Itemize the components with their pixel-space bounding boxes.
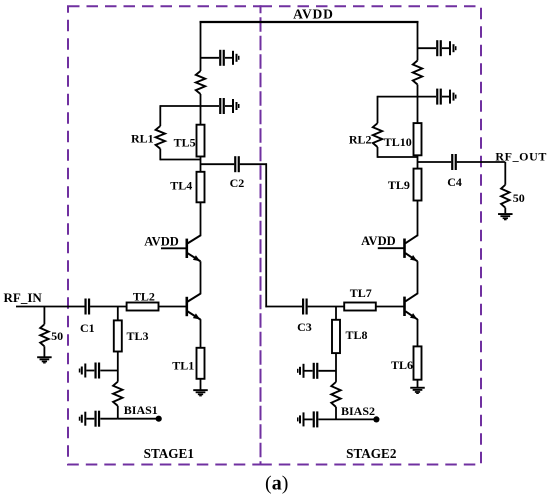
resistor stage1 bias bbox=[113, 382, 122, 406]
resistor 50 (input termination) bbox=[40, 307, 48, 357]
svg-text:TL7: TL7 bbox=[350, 286, 372, 300]
svg-text:TL3: TL3 bbox=[126, 329, 148, 343]
label TL5 bbox=[174, 135, 196, 149]
label STAGE1 bbox=[144, 446, 194, 461]
wire C4 to RF_OUT bbox=[457, 161, 506, 163]
svg-text:RL2: RL2 bbox=[349, 133, 372, 147]
svg-text:AVDD: AVDD bbox=[293, 7, 333, 22]
bypass capacitor+ground (stage2 lower) bbox=[418, 89, 457, 105]
svg-text:AVDD: AVDD bbox=[361, 234, 396, 248]
capacitor C4 bbox=[451, 154, 457, 170]
wire Q2 emitter to TL1 bbox=[200, 319, 202, 348]
label AVDD (top rail) bbox=[293, 7, 333, 22]
bypass capacitor+ground (stage1 lower) bbox=[201, 98, 240, 114]
wire AVDD to Q1 base bbox=[161, 247, 187, 249]
label TL2 bbox=[133, 290, 155, 304]
svg-text:C2: C2 bbox=[230, 176, 245, 190]
resistor stage2 drain bias bbox=[413, 61, 422, 85]
svg-text:(a): (a) bbox=[265, 472, 288, 494]
svg-text:RL1: RL1 bbox=[131, 132, 154, 146]
label TL4 bbox=[170, 179, 192, 193]
wire stage2 column to RL2 node bbox=[417, 85, 419, 124]
wire stage1 drain column upper bbox=[200, 22, 202, 71]
wire bias resistor to BIAS2 node bbox=[335, 407, 337, 419]
svg-text:TL1: TL1 bbox=[172, 359, 194, 373]
svg-text:RF_IN: RF_IN bbox=[4, 290, 43, 305]
svg-text:RF_OUT: RF_OUT bbox=[495, 150, 547, 164]
AVDD supply rail wire bbox=[200, 21, 419, 23]
ground (input termination) bbox=[37, 356, 52, 363]
wire stage2 drain column upper bbox=[417, 22, 419, 61]
label AVDD (stage1 base) bbox=[144, 234, 179, 248]
ground (stage2 source) bbox=[410, 387, 425, 394]
svg-text:TL4: TL4 bbox=[170, 179, 192, 193]
wire TL8 to bias node bbox=[335, 353, 337, 382]
label RF_OUT bbox=[495, 150, 547, 164]
label TL7 bbox=[350, 286, 372, 300]
label TL8 bbox=[345, 328, 367, 342]
transmission line TL2 bbox=[127, 303, 159, 311]
label C2 bbox=[230, 176, 245, 190]
transmission line TL8 bbox=[332, 320, 340, 353]
bypass capacitor+ground (stage2 bias upper) bbox=[297, 363, 336, 379]
transmission line TL6 bbox=[414, 346, 422, 379]
transmission line TL5 bbox=[197, 125, 205, 157]
wire TL10 to TL9 node bbox=[417, 155, 419, 168]
wire stage1 output node to C2 bbox=[201, 163, 235, 165]
wire TL7 to Q4 base bbox=[376, 306, 405, 308]
wire TL6 to ground bbox=[417, 380, 419, 387]
svg-text:50: 50 bbox=[513, 191, 525, 205]
wire junction to TL3 bbox=[117, 307, 119, 321]
resistor RL1 bbox=[156, 105, 201, 160]
wire C2 to stage2 input bbox=[240, 163, 302, 307]
resistor stage1 drain bias bbox=[196, 71, 205, 94]
label BIAS2 bbox=[341, 404, 375, 418]
ground (stage1 source) bbox=[193, 389, 208, 396]
bypass capacitor+ground (stage1 upper) bbox=[201, 50, 240, 66]
svg-text:TL5: TL5 bbox=[174, 135, 196, 149]
terminal BIAS1 bbox=[156, 416, 162, 422]
svg-text:TL10: TL10 bbox=[384, 135, 412, 149]
bypass capacitor+ground (stage1 bias upper) bbox=[79, 363, 118, 379]
resistor 50 (output termination) bbox=[501, 162, 509, 213]
svg-text:C3: C3 bbox=[297, 320, 312, 334]
svg-text:C1: C1 bbox=[80, 321, 95, 335]
svg-text:50: 50 bbox=[51, 329, 63, 343]
label TL10 bbox=[384, 135, 412, 149]
wire TL2 to Q2 base bbox=[159, 306, 187, 308]
wire TL1 to ground bbox=[200, 379, 202, 390]
capacitor C1 bbox=[84, 299, 90, 315]
wire junction to TL8 bbox=[335, 307, 337, 320]
label TL6 bbox=[391, 358, 413, 372]
label C1 bbox=[80, 321, 95, 335]
svg-text:C4: C4 bbox=[447, 175, 462, 189]
wire AVDD to Q3 base bbox=[378, 247, 405, 249]
transistor Q4 (stage2 common emitter) bbox=[403, 293, 417, 319]
label RF_IN bbox=[4, 290, 43, 305]
wire bias resistor to BIAS1 node bbox=[117, 406, 119, 419]
svg-text:TL6: TL6 bbox=[391, 358, 413, 372]
bypass capacitor+ground (stage2 bias lower) bbox=[297, 411, 336, 427]
svg-text:STAGE1: STAGE1 bbox=[144, 446, 194, 461]
wire TL9 to Q3 collector bbox=[417, 201, 419, 237]
transmission line TL4 bbox=[197, 172, 205, 203]
wire Q3 emitter to Q4 collector bbox=[417, 261, 419, 294]
wire Q1 emitter to Q2 collector bbox=[200, 261, 202, 294]
transmission line TL7 bbox=[344, 303, 376, 311]
transistor Q2 (stage1 common emitter) bbox=[186, 294, 201, 320]
label TL3 bbox=[126, 329, 148, 343]
bypass capacitor+ground (stage2 upper) bbox=[418, 40, 457, 56]
transistor Q3 (stage2 cascode) bbox=[403, 235, 417, 261]
transmission line TL1 bbox=[197, 348, 205, 379]
stage2 dashed boundary box bbox=[261, 6, 482, 464]
wire stage1 column to RL1 node bbox=[200, 94, 202, 125]
wire BIAS1 node bbox=[118, 418, 159, 420]
wire Q4 emitter to TL6 bbox=[417, 319, 419, 346]
svg-text:TL8: TL8 bbox=[345, 328, 367, 342]
resistor stage2 bias bbox=[331, 382, 340, 407]
label 50 (output) bbox=[513, 191, 525, 205]
transistor Q1 (stage1 cascode) bbox=[186, 235, 201, 261]
bypass capacitor+ground (stage1 bias lower) bbox=[79, 411, 118, 427]
svg-text:TL2: TL2 bbox=[133, 290, 155, 304]
label BIAS1 bbox=[124, 403, 158, 417]
wire RF_IN input bbox=[16, 306, 85, 308]
label STAGE2 bbox=[346, 446, 397, 461]
label C4 bbox=[447, 175, 462, 189]
ground (output termination) bbox=[498, 213, 513, 220]
caption (a) bbox=[265, 472, 288, 494]
label AVDD (stage2 base) bbox=[361, 234, 396, 248]
label TL1 bbox=[172, 359, 194, 373]
label RL2 bbox=[349, 133, 372, 147]
transmission line TL10 bbox=[414, 123, 422, 155]
wire C1 to TL2 bbox=[90, 306, 127, 308]
capacitor C3 bbox=[302, 299, 308, 315]
svg-text:TL9: TL9 bbox=[388, 178, 410, 192]
label C3 bbox=[297, 320, 312, 334]
wire TL4 to Q1 collector bbox=[200, 202, 202, 236]
capacitor C2 bbox=[234, 156, 240, 172]
label TL9 bbox=[388, 178, 410, 192]
svg-text:AVDD: AVDD bbox=[144, 234, 179, 248]
svg-text:BIAS1: BIAS1 bbox=[124, 403, 158, 417]
svg-text:STAGE2: STAGE2 bbox=[346, 446, 397, 461]
wire BIAS2 node bbox=[336, 418, 376, 420]
transmission line TL3 bbox=[114, 320, 122, 351]
wire C3 to TL7 bbox=[308, 306, 345, 308]
svg-text:BIAS2: BIAS2 bbox=[341, 404, 375, 418]
wire TL5 to TL4 node bbox=[200, 157, 202, 172]
wire stage2 output node to C4 bbox=[418, 161, 452, 163]
stage1 dashed boundary box bbox=[68, 6, 261, 464]
resistor RL2 bbox=[373, 96, 418, 158]
label RL1 bbox=[131, 132, 154, 146]
transmission line TL9 bbox=[414, 169, 422, 201]
wire TL3 to bias node bbox=[117, 352, 119, 382]
label 50 (input) bbox=[51, 329, 63, 343]
terminal BIAS2 bbox=[373, 416, 379, 422]
